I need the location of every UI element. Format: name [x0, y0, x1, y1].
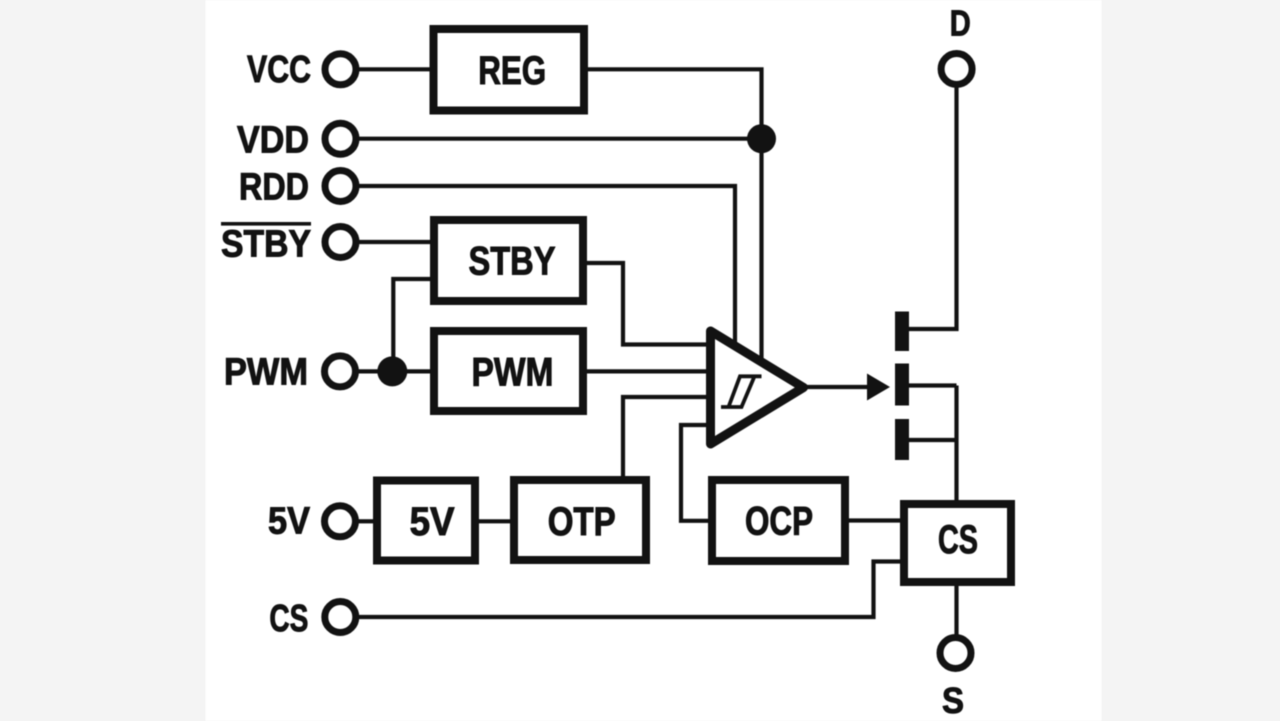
block OTP: [514, 480, 646, 560]
wire VCC pin to REG: [359, 67, 430, 71]
wire STBY block output to driver input: [586, 263, 708, 345]
pin circle STBY: [325, 227, 356, 258]
wire VDD pin to junction: [359, 137, 762, 141]
pin circle 5V: [325, 506, 356, 537]
junction dot VDD: [747, 124, 776, 153]
block PWM: [434, 331, 583, 411]
pin circle VCC: [325, 54, 356, 85]
svg-text:OTP: OTP: [548, 500, 616, 544]
wire drain stub to D pin: [909, 88, 957, 330]
junction dot PWM: [377, 356, 407, 386]
svg-text:STBY: STBY: [469, 240, 556, 284]
overline STBY: [221, 222, 311, 226]
driver buffer U1 (Schmitt trigger triangle): [711, 331, 804, 444]
svg-text:CS: CS: [938, 518, 978, 562]
svg-text:CS: CS: [269, 598, 308, 640]
pin circle CS: [325, 602, 356, 633]
wire OCP feedback to driver input: [681, 425, 709, 521]
wire PWM pin to PWM block: [358, 369, 431, 373]
svg-text:OCP: OCP: [745, 500, 813, 544]
wire PWM junction up to STBY block: [393, 279, 431, 371]
wire body stub: [909, 383, 957, 387]
svg-text:STBY: STBY: [221, 224, 311, 266]
svg-text:S: S: [942, 680, 964, 721]
pin circle S: [940, 638, 971, 669]
block STBY: [434, 220, 583, 301]
arrowhead driver output: [867, 374, 890, 401]
pin circle VDD: [325, 123, 356, 154]
wire OCP to CS block: [848, 518, 901, 522]
wire source stub: [909, 438, 957, 442]
block OCP: [712, 480, 845, 561]
wire driver output to gate: [803, 385, 872, 389]
block REG: [434, 29, 585, 111]
svg-text:VCC: VCC: [247, 49, 311, 91]
wire CS block down to S pin: [954, 585, 958, 636]
wire STBY pin to STBY block: [359, 240, 431, 244]
transistor Q1 channel bar (source side): [895, 419, 909, 460]
svg-text:PWM: PWM: [224, 352, 308, 394]
wire source down to CS block: [954, 386, 958, 502]
wire REG output to vertical into driver top: [587, 69, 762, 362]
pin circle RDD: [325, 171, 356, 202]
svg-text:PWM: PWM: [472, 351, 554, 395]
svg-text:5V: 5V: [268, 501, 311, 543]
svg-text:REG: REG: [478, 49, 546, 93]
wire RDD pin right then down into driver top: [359, 186, 735, 347]
wire 5V pin to 5V block: [358, 519, 374, 523]
white canvas: [206, 0, 1102, 721]
wire OTP up to driver input: [623, 397, 708, 477]
svg-text:D: D: [950, 3, 971, 44]
svg-text:5V: 5V: [410, 500, 455, 544]
hysteresis symbol inside U1: [721, 376, 762, 407]
transistor Q1 channel bar (drain side): [895, 312, 909, 352]
wire CS pin to CS block: [359, 562, 901, 618]
pin circle D: [941, 54, 972, 85]
svg-text:VDD: VDD: [237, 120, 309, 162]
block 5V: [377, 481, 475, 561]
transistor Q1 channel bar (body/gate, arrow target): [895, 364, 909, 406]
pin circle PWM: [325, 356, 356, 387]
wire PWM block output to driver input: [586, 369, 708, 373]
svg-text:RDD: RDD: [239, 167, 309, 209]
wire 5V block to OTP block: [478, 519, 511, 523]
block CS: [904, 504, 1011, 582]
